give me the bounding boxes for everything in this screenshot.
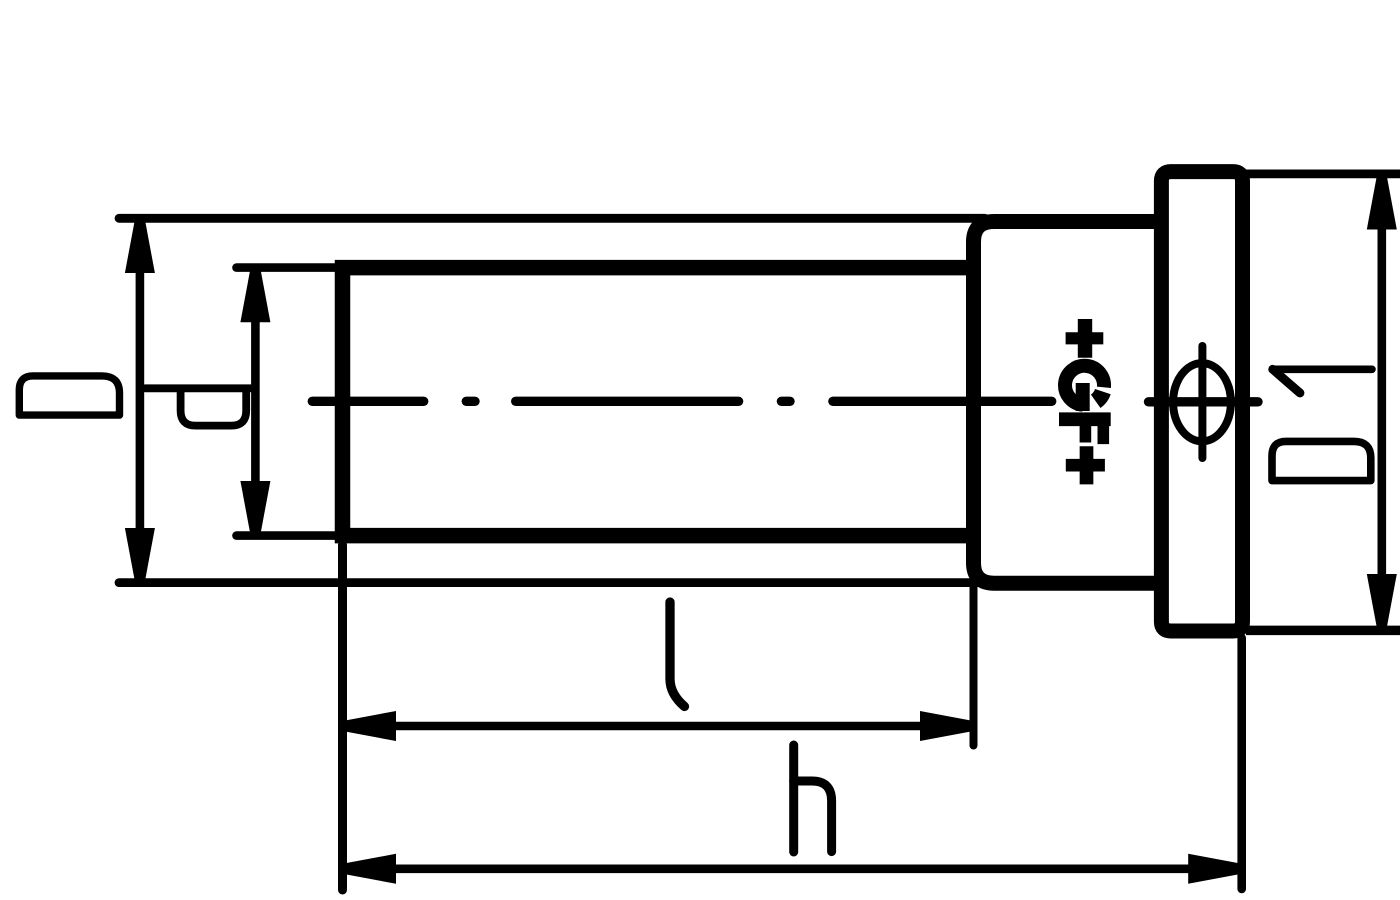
centerline — [312, 397, 1258, 407]
flange collar outline — [1161, 172, 1242, 631]
arrow D top — [125, 220, 155, 274]
label D1 (rotated): digit 1 stem — [1273, 365, 1372, 373]
arrow h right — [1188, 854, 1242, 884]
label h: arch — [794, 781, 832, 852]
vent hole ellipse — [1173, 363, 1231, 441]
label D1 (rotated): digit 1 flag — [1273, 369, 1300, 393]
extension line l/h left (below pipe) — [338, 545, 347, 890]
label D (rotated) — [19, 376, 119, 415]
dimension line D — [136, 222, 145, 580]
arrow d top — [240, 269, 270, 323]
extension line d bottom — [237, 531, 346, 540]
GF logo letter F (rotated): top arm — [1098, 420, 1110, 444]
dimension line l — [344, 722, 972, 731]
extension line l right (below socket mouth) — [970, 588, 978, 746]
extension line D top — [119, 214, 985, 223]
GF logo letter F (rotated): middle arm — [1080, 420, 1092, 443]
extension line D bottom — [119, 578, 985, 587]
GF logo plus top — [1066, 319, 1104, 358]
outlet top line — [1246, 170, 1400, 179]
arrow D1 top — [1367, 176, 1397, 230]
socket body outline — [974, 222, 1166, 584]
vent hole vertical centerline — [1198, 346, 1206, 458]
arrow D1 bottom — [1367, 574, 1397, 628]
label d (rotated): stem — [145, 384, 251, 392]
pipe spigot outline — [343, 268, 977, 536]
arrow l left — [343, 711, 397, 741]
GF logo plus bottom — [1066, 446, 1105, 484]
extension line d top — [237, 263, 346, 272]
GF logo letter G (rotated): center bar — [1076, 383, 1090, 411]
dimension line d — [251, 270, 260, 533]
label l — [670, 602, 685, 707]
arrow D bottom — [125, 528, 155, 582]
GF logo letter F (rotated): stem — [1059, 412, 1111, 426]
GF logo letter G (rotated): main ring arc — [1065, 366, 1104, 405]
outlet bottom line — [1246, 626, 1400, 636]
GF logo letter G (rotated): terminal block — [1096, 392, 1103, 402]
arrow l right — [920, 711, 974, 741]
label D1 (rotated): letter D — [1272, 441, 1371, 480]
arrow h left — [343, 854, 397, 884]
label h: stem — [789, 745, 798, 852]
label d (rotated): bowl — [181, 388, 247, 425]
arrow d bottom — [240, 481, 270, 535]
dimension line D1 — [1378, 178, 1387, 625]
extension line h right (below flange) — [1237, 638, 1246, 889]
dimension line h — [344, 864, 1240, 873]
